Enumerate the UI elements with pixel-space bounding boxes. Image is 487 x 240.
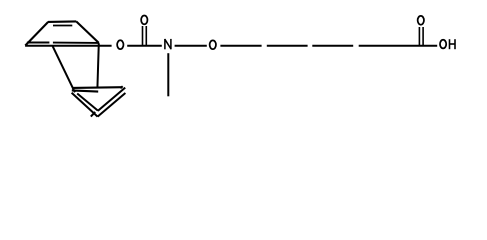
wire: chain bond 3: [312, 45, 353, 47]
wire: lower horizontal to ester O: [25, 45, 112, 47]
wire: N-methyl bond: [167, 53, 169, 96]
wire: lower ring inner V right arm: [98, 88, 125, 111]
wire: N to aminooxy O bond: [175, 45, 207, 47]
wire: lower ring outer V left arm: [72, 93, 98, 117]
node H of hydroxyl OH label: [450, 39, 456, 49]
wire: lower ring lower horizontal: [72, 90, 98, 91]
wire: bond ester O to carbonyl C and C to N: [127, 45, 162, 47]
wire: lower ring outer V right arm: [98, 93, 126, 117]
wire: fluorene top ring top edge: [48, 20, 76, 23]
wire: lower ring inner V left arm: [77, 94, 98, 111]
wire: carboxyl C=O double bond right line: [422, 27, 424, 46]
node N nitrogen label: [165, 39, 171, 49]
node O carboxyl double-bond oxygen label: [418, 16, 424, 25]
node O aminooxy oxygen label: [210, 40, 216, 49]
node O of hydroxyl OH label: [440, 40, 446, 49]
wire: carbonyl C=O double bond left line: [142, 26, 144, 46]
wire: chain bond 2: [267, 45, 308, 47]
node O carbonyl oxygen label: [141, 16, 147, 25]
wire: chain bond 4 to carboxyl and to OH: [359, 45, 438, 47]
wire: lower ring upper horizontal: [72, 86, 122, 89]
wire: chain bond 1: [220, 45, 261, 47]
wire: carbonyl C=O double bond right line: [145, 26, 147, 46]
wire: upper horizontal left part: [27, 42, 50, 44]
wire: top ring right diagonal: [76, 21, 99, 43]
node O ester oxygen label: [117, 40, 123, 49]
wire: upper horizontal right part: [53, 42, 99, 44]
wire: carboxyl C=O double bond left line: [418, 27, 420, 46]
wire: short crossing stroke at lower ring vertex: [91, 112, 95, 117]
wire: tick at right end of lower ring upper horizontal: [120, 86, 122, 88]
wire: top ring left diagonal: [25, 22, 48, 46]
wire: steep diagonal to lower ring: [53, 46, 75, 92]
wire: vertical bridge: [97, 43, 98, 88]
wire: top ring inner double bond: [53, 25, 72, 27]
